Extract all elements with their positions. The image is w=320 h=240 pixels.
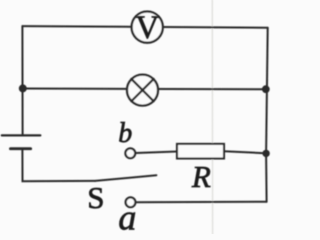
node junction dot right lower (resistor branch tap) xyxy=(262,150,269,157)
wire resistor to right node xyxy=(224,151,265,153)
switch terminal a (contact circle) xyxy=(126,197,136,207)
scan crease (faint vertical fold line) xyxy=(211,0,213,234)
wire terminal a to bottom-right corner xyxy=(136,201,267,204)
wire top (battery + to voltmeter branch) xyxy=(22,26,267,28)
wire battery negative down and along bottom-left xyxy=(22,149,95,182)
wire terminal b to resistor xyxy=(136,152,177,154)
wire lamp branch (left node to right node) xyxy=(23,88,266,91)
svg-text:b: b xyxy=(118,118,132,149)
resistor R box xyxy=(177,144,224,159)
node junction dot right upper (lamp branch tap) xyxy=(262,85,270,93)
battery long plate (+) xyxy=(2,134,41,136)
wire right vertical (top corner down to bottom corner) xyxy=(266,28,268,202)
svg-text:R: R xyxy=(191,159,211,194)
voltmeter U (V) circle xyxy=(132,12,163,43)
svg-text:S: S xyxy=(87,180,104,215)
switch S lever (open blade) xyxy=(95,175,156,181)
svg-text:V: V xyxy=(135,10,159,46)
wire left vertical (top corner to battery) xyxy=(21,26,23,135)
battery short plate (-) xyxy=(11,147,31,150)
node junction dot left (lamp branch tap) xyxy=(19,84,27,92)
svg-text:a: a xyxy=(118,198,136,235)
lamp L circle with X xyxy=(127,75,158,106)
switch terminal b (contact circle) xyxy=(125,148,135,158)
